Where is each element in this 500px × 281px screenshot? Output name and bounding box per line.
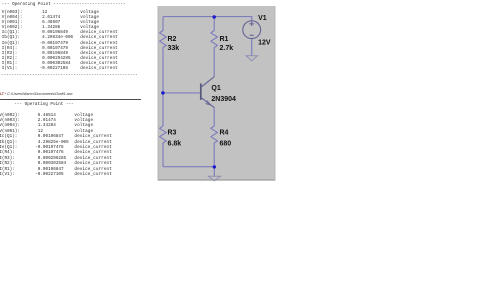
svg-text:V1: V1 — [258, 15, 267, 22]
svg-text:680: 680 — [220, 140, 232, 147]
svg-text:R2: R2 — [168, 36, 177, 43]
svg-text:12V: 12V — [258, 39, 271, 46]
svg-text:2.7k: 2.7k — [220, 45, 234, 52]
svg-text:33k: 33k — [168, 45, 180, 52]
svg-text:R1: R1 — [220, 36, 229, 43]
svg-text:2N3904: 2N3904 — [211, 96, 236, 103]
svg-text:R4: R4 — [220, 130, 229, 137]
svg-text:6.8k: 6.8k — [168, 140, 182, 147]
svg-text:R3: R3 — [168, 130, 177, 137]
svg-text:Q1: Q1 — [211, 85, 220, 92]
